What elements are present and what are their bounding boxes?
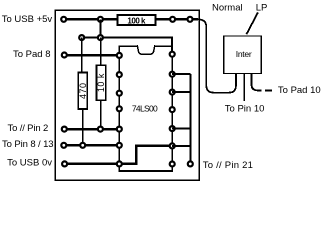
wire bus bracket right of IC <box>189 74 191 164</box>
wire To Pad 8 <box>64 54 119 56</box>
node B +5v junction <box>98 17 103 22</box>
node bracket bottom terminal <box>188 161 193 166</box>
svg-text:To // Pin 21: To // Pin 21 <box>203 160 254 171</box>
svg-text:Inter: Inter <box>236 49 252 59</box>
node D +5v edge terminal <box>188 17 193 22</box>
IC pin R2 <box>170 72 175 77</box>
wire stub R5 to bracket <box>172 128 190 130</box>
wire node B down to divider rail <box>99 19 101 37</box>
node 0v terminal <box>62 161 67 166</box>
wire +5v exit curve down to switch <box>198 19 237 92</box>
wire switch right lead curve <box>252 74 262 91</box>
wire 10k bottom lead <box>100 100 102 129</box>
IC pin R4 <box>170 107 175 112</box>
node C +5v right junction <box>170 17 175 22</box>
svg-text:10 k: 10 k <box>96 73 106 92</box>
IC pin R6 <box>170 143 175 148</box>
wire To // Pin 2 row <box>64 128 119 130</box>
svg-text:To Pin 8 / 13: To Pin 8 / 13 <box>2 139 54 150</box>
wire To Pin 8 / 13 row <box>64 144 120 146</box>
svg-text:To // Pin 2: To // Pin 2 <box>7 123 48 134</box>
wire stub R2 to bracket <box>172 73 190 75</box>
svg-text:100 k: 100 k <box>127 17 146 26</box>
wire stub R6 to bracket <box>172 145 190 147</box>
svg-text:To USB 0v: To USB 0v <box>7 157 52 168</box>
node pin2 terminal <box>62 127 67 132</box>
IC pin L3 <box>117 91 122 96</box>
resistor R3 10k body <box>97 65 106 100</box>
svg-text:To Pad 8: To Pad 8 <box>13 49 51 60</box>
wire 470 top lead <box>81 38 83 73</box>
wire 470 bottom lead <box>82 109 84 145</box>
wire switch middle lead to pin 10 <box>243 74 245 101</box>
wire +5v rail left segment <box>64 18 118 20</box>
svg-text:LP: LP <box>256 2 268 13</box>
IC pin R3 <box>170 90 175 95</box>
node pin2 10k junction <box>98 127 103 132</box>
IC pin R1 <box>170 52 175 57</box>
node G pad8 terminal <box>62 53 67 58</box>
svg-text:Normal: Normal <box>212 2 243 13</box>
node pin8-13 terminal <box>61 143 66 148</box>
resistor R2 470 body <box>78 73 87 110</box>
wire 0v step link to pin row 6 <box>119 146 172 164</box>
board outline box <box>55 10 199 180</box>
wire stub R3 to bracket <box>172 91 190 93</box>
wire To USB 0v row <box>65 163 120 166</box>
node F divider right <box>98 35 103 40</box>
svg-text:470: 470 <box>78 82 88 99</box>
IC pin R7 <box>170 162 175 167</box>
IC pin L2 <box>117 72 122 77</box>
node A +5v left terminal <box>61 17 66 22</box>
wire +5v rail right segment <box>156 18 199 20</box>
IC pin L5 <box>117 127 122 132</box>
IC pin L4 <box>117 106 122 111</box>
node pin8-13 470 junction <box>80 143 85 148</box>
IC pin L6 <box>117 143 122 148</box>
switch S1 Inter box <box>224 36 262 74</box>
IC pin L1 <box>117 53 122 58</box>
IC pin L7 <box>117 161 122 166</box>
node E divider left <box>79 35 84 40</box>
IC U1 notch <box>137 43 155 47</box>
svg-text:To Pad 10: To Pad 10 <box>278 85 321 96</box>
resistor R1 100k body <box>118 15 156 25</box>
svg-text:To USB +5v: To USB +5v <box>2 14 53 25</box>
switch S1 lever <box>247 13 258 35</box>
svg-text:To Pin 10: To Pin 10 <box>225 103 265 114</box>
IC U1 74LS00 outline <box>119 46 172 171</box>
wire 10k top lead <box>100 38 102 66</box>
IC pin R5 <box>170 126 175 131</box>
wire divider rail to IC pin row 1 right <box>82 38 172 52</box>
svg-text:74LS00: 74LS00 <box>132 103 158 113</box>
wire dash to pad 10 <box>265 89 272 91</box>
